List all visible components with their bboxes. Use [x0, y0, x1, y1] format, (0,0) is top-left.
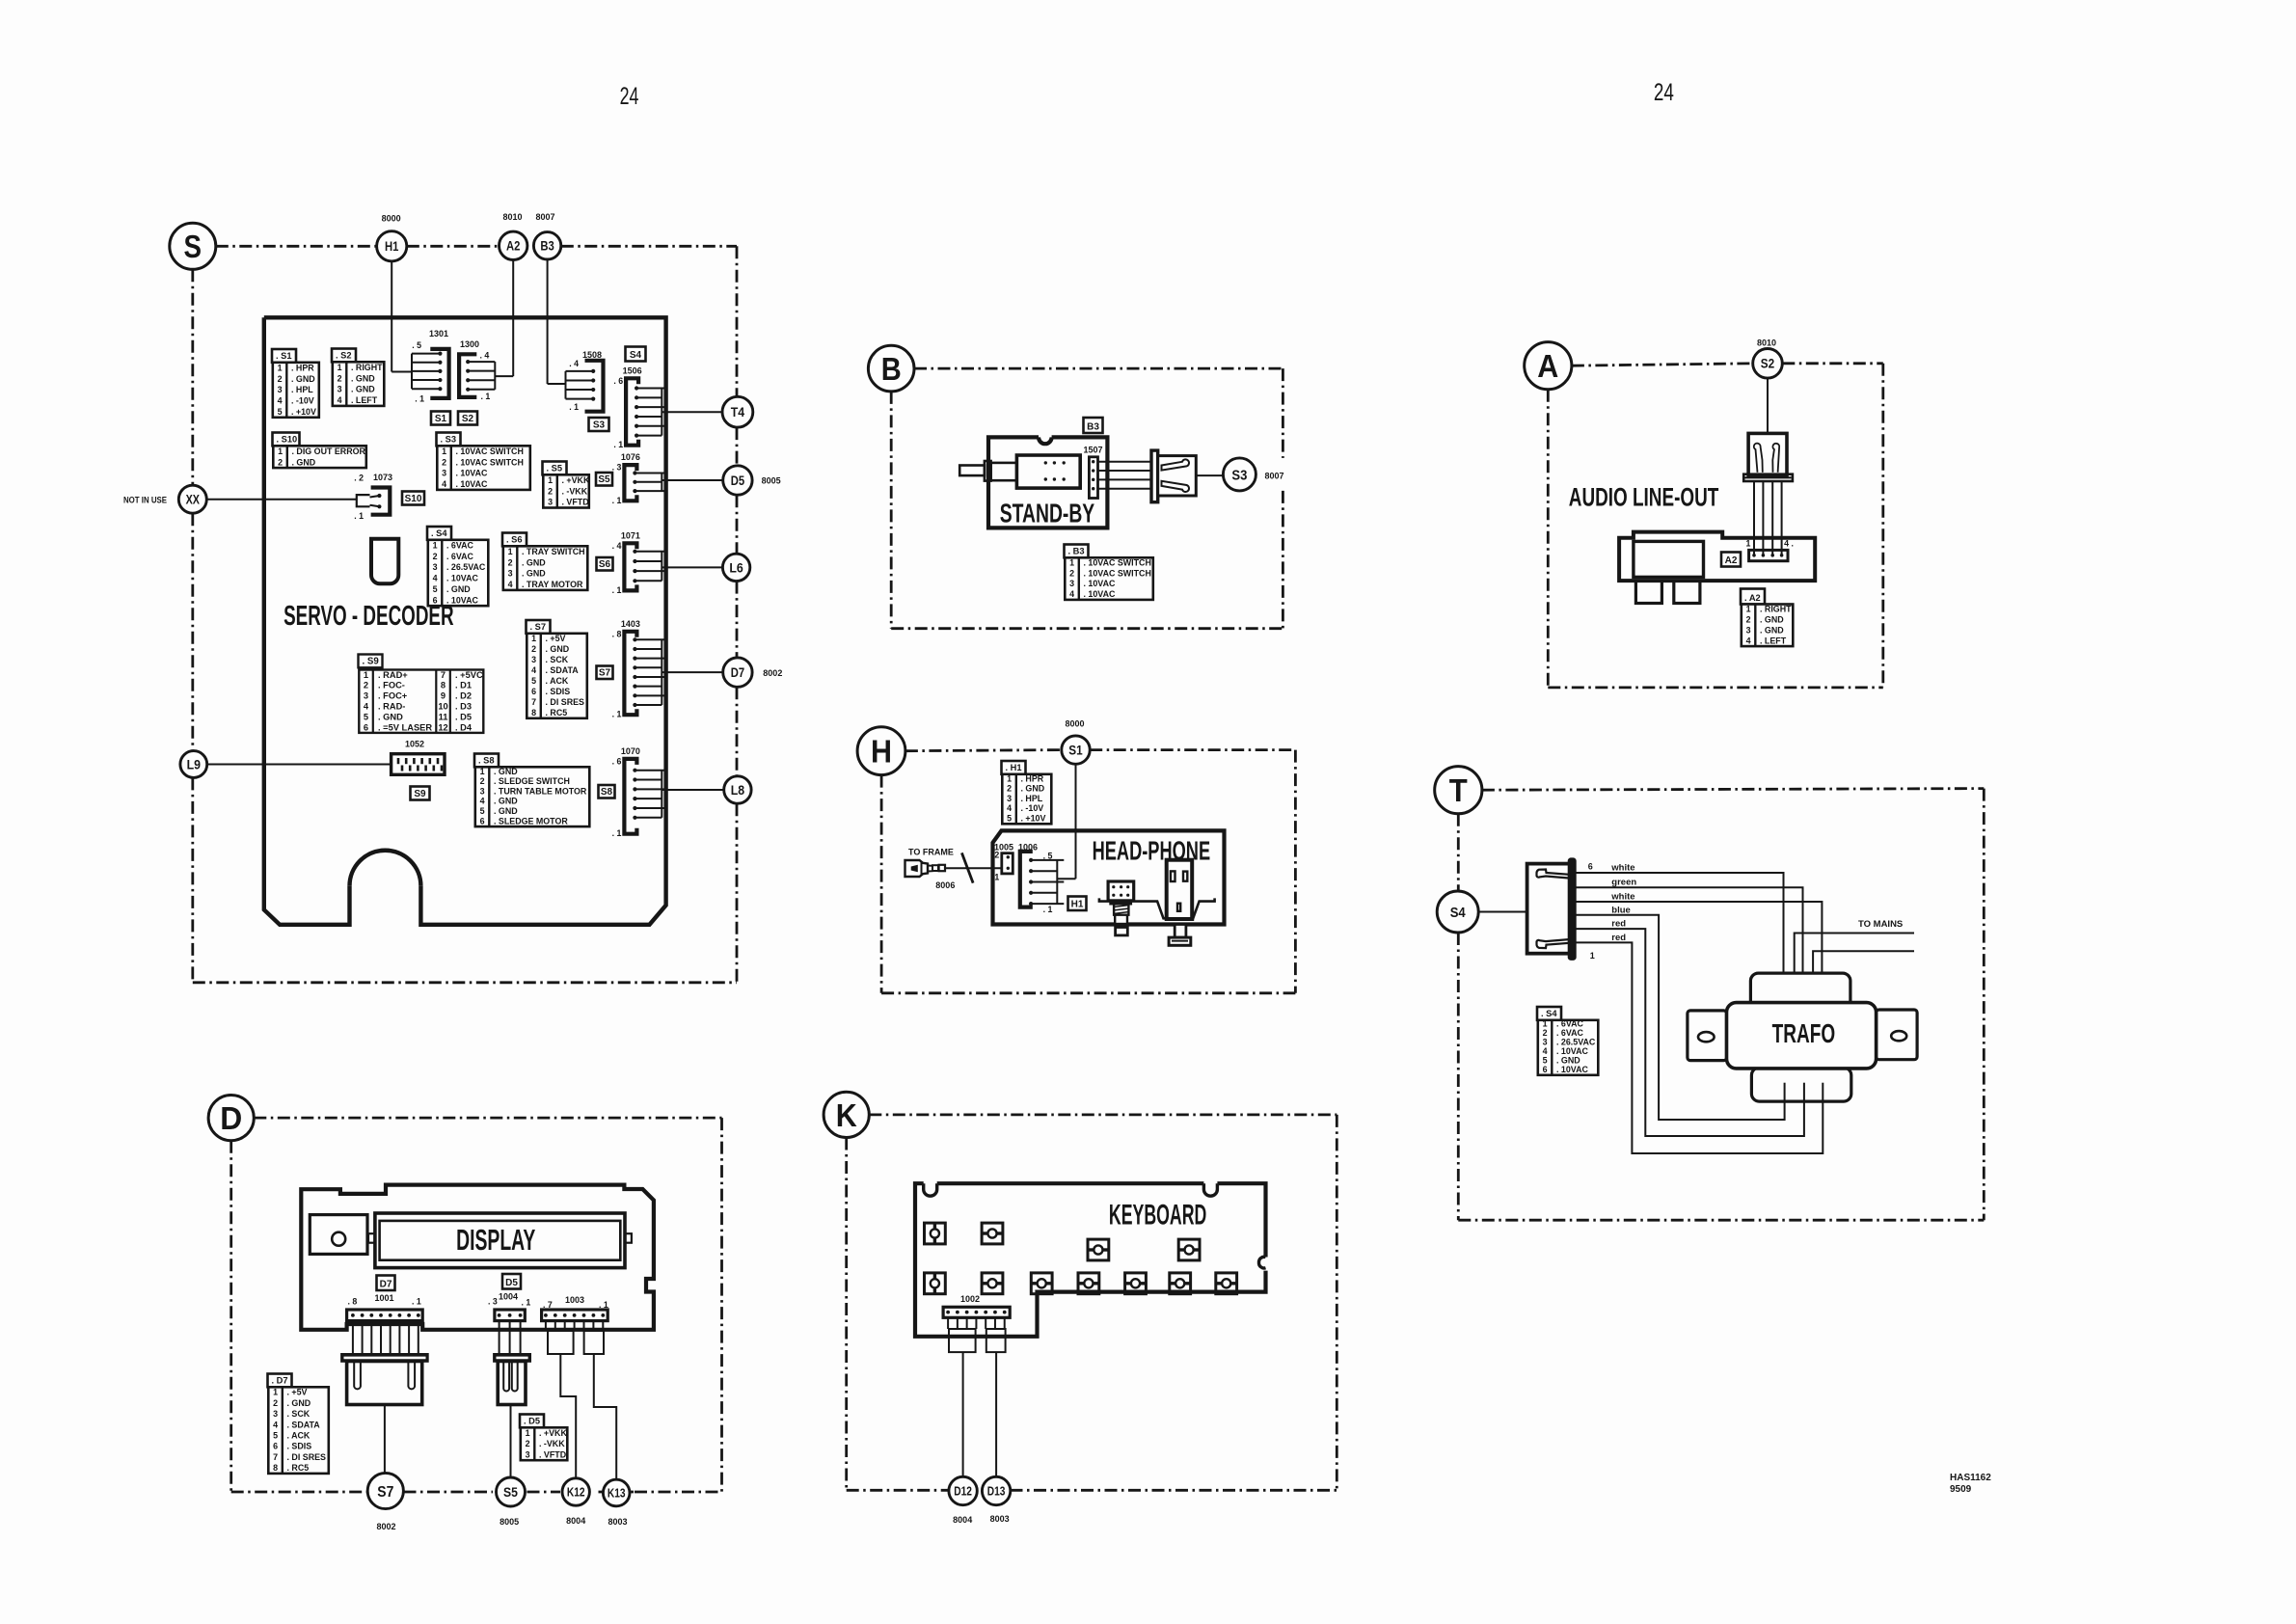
svg-text:S4: S4 [630, 350, 642, 361]
connector 1071 [612, 530, 723, 595]
svg-text:2: 2 [1069, 568, 1074, 578]
node D12 [949, 1476, 977, 1504]
svg-text:DISPLAY: DISPLAY [456, 1223, 535, 1257]
svg-text:. 1: . 1 [412, 1297, 421, 1307]
svg-text:2: 2 [1543, 1028, 1548, 1038]
connector 1403 [612, 619, 723, 719]
svg-text:1: 1 [278, 447, 283, 456]
svg-text:. 10VAC: . 10VAC [456, 469, 488, 478]
svg-text:. =5V LASER: . =5V LASER [378, 722, 432, 732]
svg-text:B: B [881, 351, 902, 387]
node K13 [603, 1479, 630, 1506]
pin table S5 [543, 462, 590, 508]
wire L9 to 1052 [207, 764, 392, 766]
doc code HAS1162 9509 [1950, 1473, 1991, 1495]
svg-text:. 10VAC: . 10VAC [1084, 589, 1116, 599]
svg-text:. B3: . B3 [1068, 547, 1085, 556]
node S7 [367, 1473, 403, 1508]
svg-text:1002: 1002 [960, 1294, 980, 1304]
node T4 [722, 396, 753, 427]
svg-text:S3: S3 [1231, 467, 1247, 483]
wire S4 to mains connector [1478, 911, 1526, 913]
wire blue to trafo bottom [1575, 915, 1784, 1120]
wire XX to 1073 [206, 499, 356, 501]
svg-text:8005: 8005 [500, 1517, 519, 1527]
svg-text:. 3: . 3 [488, 1297, 498, 1307]
svg-text:3: 3 [338, 385, 342, 394]
svg-text:. 6VAC: . 6VAC [446, 540, 474, 550]
display board outline [301, 1185, 654, 1330]
connector label box S2 [458, 412, 477, 425]
svg-text:5: 5 [1543, 1056, 1548, 1066]
pin table S9 double [359, 655, 484, 733]
key switch row2 c [1031, 1273, 1052, 1294]
svg-text:1507: 1507 [1083, 446, 1102, 455]
svg-text:6: 6 [1588, 862, 1593, 872]
svg-text:. SCK: . SCK [287, 1409, 311, 1419]
svg-text:S5: S5 [598, 474, 610, 485]
svg-text:. RAD+: . RAD+ [378, 670, 408, 680]
wire bundles 1003 [546, 1321, 604, 1354]
svg-text:green: green [1611, 878, 1636, 888]
svg-text:1508: 1508 [582, 350, 602, 360]
svg-text:K12: K12 [567, 1485, 585, 1500]
svg-text:6: 6 [480, 816, 485, 826]
svg-text:D5: D5 [505, 1278, 518, 1288]
svg-text:. D2: . D2 [455, 691, 472, 701]
svg-text:. 1: . 1 [612, 496, 622, 505]
svg-text:. GND: . GND [522, 569, 546, 579]
head-phone board outline [993, 830, 1225, 924]
svg-text:5: 5 [364, 712, 368, 721]
node K12 [562, 1478, 589, 1505]
svg-text:. S3: . S3 [441, 435, 457, 445]
wire S1 to 1006 [1057, 764, 1075, 879]
wire green to trafo [1575, 887, 1802, 993]
svg-text:STAND-BY: STAND-BY [1000, 499, 1095, 528]
svg-text:S7: S7 [599, 668, 611, 679]
key switch row2 f [1170, 1273, 1191, 1294]
wire white to trafo [1575, 902, 1822, 993]
svg-text:. HPR: . HPR [1021, 773, 1044, 783]
svg-text:1: 1 [548, 475, 553, 485]
svg-text:D7: D7 [731, 665, 744, 680]
node K [824, 1092, 869, 1137]
svg-text:B3: B3 [1087, 422, 1099, 433]
svg-text:2: 2 [442, 457, 446, 467]
svg-text:. VFTD: . VFTD [539, 1449, 567, 1459]
pin table D7 display [268, 1374, 329, 1474]
svg-text:. D7: . D7 [272, 1376, 288, 1386]
svg-text:8006: 8006 [935, 880, 955, 890]
svg-text:1001: 1001 [374, 1293, 393, 1303]
svg-text:. 1: . 1 [569, 402, 579, 412]
connector 1002 [943, 1294, 1010, 1317]
svg-text:4: 4 [278, 396, 283, 406]
svg-text:6: 6 [1543, 1065, 1548, 1074]
svg-text:. 1: . 1 [415, 394, 424, 404]
svg-text:. 5: . 5 [412, 340, 421, 350]
node S4 [1437, 891, 1478, 933]
node D5 [723, 466, 752, 495]
svg-text:. -10V: . -10V [1021, 803, 1044, 813]
key switch row2 a [925, 1273, 946, 1294]
svg-text:H1: H1 [1071, 900, 1084, 910]
svg-text:D5: D5 [731, 474, 745, 488]
svg-text:3: 3 [1069, 579, 1074, 588]
svg-text:8: 8 [531, 708, 536, 717]
svg-text:. RC5: . RC5 [287, 1463, 310, 1473]
svg-text:. D3: . D3 [455, 702, 472, 712]
svg-text:. 6VAC: . 6VAC [1556, 1019, 1584, 1029]
svg-text:1004: 1004 [499, 1292, 518, 1302]
svg-text:. 6VAC: . 6VAC [446, 552, 474, 561]
mounting bracket line [1099, 898, 1215, 918]
connector label box S4 [626, 347, 646, 362]
svg-text:1300: 1300 [460, 339, 479, 349]
svg-text:D7: D7 [380, 1280, 392, 1290]
svg-text:. GND: . GND [522, 557, 546, 567]
connector 1003 [542, 1295, 608, 1321]
key switch row1 a [925, 1223, 946, 1244]
svg-text:. TRAY SWITCH: . TRAY SWITCH [522, 547, 585, 556]
svg-text:7: 7 [273, 1452, 278, 1462]
svg-text:. HPR: . HPR [291, 363, 314, 372]
pin table S10 [273, 433, 366, 469]
connector 1300 [459, 339, 495, 401]
key switch row1 c [1088, 1239, 1109, 1260]
wire to D13 [995, 1352, 997, 1476]
connector 1005 [994, 843, 1013, 882]
svg-text:KEYBOARD: KEYBOARD [1109, 1200, 1206, 1232]
svg-text:2: 2 [1007, 784, 1012, 794]
connector 1052 [392, 740, 445, 775]
connector 1073 [354, 473, 392, 521]
node S2 [1753, 349, 1783, 379]
svg-text:. 1: . 1 [612, 585, 622, 595]
svg-text:3: 3 [364, 691, 368, 701]
trafo body [1688, 973, 1917, 1101]
svg-text:3: 3 [1746, 625, 1751, 635]
block A dash-dot border [1548, 364, 1883, 688]
wire bundles 1002 [948, 1317, 1006, 1352]
svg-text:. LEFT: . LEFT [351, 395, 378, 405]
svg-text:B3: B3 [540, 239, 554, 254]
svg-text:. S2: . S2 [336, 351, 352, 361]
svg-text:5: 5 [273, 1431, 278, 1441]
svg-text:8000: 8000 [382, 214, 401, 224]
connector label box S3 [589, 418, 609, 431]
svg-text:. GND: . GND [494, 806, 518, 816]
node B [868, 345, 914, 392]
svg-text:8007: 8007 [535, 212, 554, 222]
connector 1507 [1083, 446, 1102, 499]
svg-text:2: 2 [526, 1439, 530, 1448]
svg-text:. 6: . 6 [613, 376, 623, 386]
svg-text:. 10VAC: . 10VAC [446, 574, 478, 583]
svg-text:. GND: . GND [1021, 784, 1045, 794]
svg-text:3: 3 [508, 569, 513, 579]
svg-text:. 4: . 4 [480, 351, 490, 361]
pin table H1 [1002, 761, 1052, 824]
svg-text:S1: S1 [435, 414, 447, 424]
svg-text:. 10VAC: . 10VAC [1556, 1065, 1588, 1074]
svg-text:3: 3 [1543, 1038, 1548, 1047]
pin table B3 [1065, 545, 1153, 600]
trafo bottom pin stubs [1785, 1083, 1823, 1101]
svg-text:1: 1 [1746, 539, 1751, 549]
node D [208, 1096, 254, 1141]
svg-text:4: 4 [442, 479, 446, 489]
node L8 [724, 776, 751, 803]
svg-text:8004: 8004 [953, 1515, 972, 1525]
node T [1435, 767, 1482, 814]
svg-text:4: 4 [1007, 803, 1012, 813]
svg-text:6: 6 [433, 595, 438, 605]
key switch row2 e [1125, 1273, 1147, 1294]
svg-text:S10: S10 [405, 494, 422, 504]
svg-text:. S1: . S1 [276, 351, 292, 361]
headphone jack symbol [1108, 881, 1134, 935]
wire S2 to phono plug [1767, 378, 1769, 433]
svg-text:T: T [1449, 772, 1468, 808]
svg-text:. GND: . GND [494, 797, 518, 806]
svg-text:3: 3 [526, 1449, 530, 1459]
plug to S3 [1151, 450, 1223, 502]
phono plug [1743, 433, 1793, 481]
connector label box S1 [431, 412, 450, 425]
svg-text:. GND: . GND [1760, 615, 1784, 625]
svg-text:S7: S7 [377, 1484, 393, 1501]
node S [170, 223, 216, 269]
svg-text:. GND: . GND [291, 374, 315, 384]
svg-text:1: 1 [994, 873, 999, 882]
svg-text:1: 1 [278, 363, 283, 372]
svg-text:. 6: . 6 [612, 756, 622, 766]
svg-text:. -10V: . -10V [291, 396, 314, 406]
svg-text:5: 5 [480, 806, 485, 816]
svg-text:6: 6 [273, 1442, 278, 1451]
svg-text:9: 9 [441, 691, 446, 701]
node D7 [723, 658, 752, 687]
svg-text:8000: 8000 [1065, 719, 1084, 729]
key switch row2 b [982, 1273, 1003, 1294]
svg-text:3: 3 [548, 498, 553, 507]
node XX not in use [178, 485, 206, 513]
connector label box S10 [402, 492, 424, 505]
svg-text:. 10VAC: . 10VAC [1556, 1046, 1588, 1056]
key switch row1 d [1178, 1239, 1200, 1260]
svg-text:. RIGHT: . RIGHT [351, 363, 383, 372]
mount plate with hole [310, 1215, 367, 1255]
svg-text:4: 4 [531, 665, 536, 675]
svg-text:2: 2 [273, 1398, 278, 1408]
svg-text:1: 1 [526, 1428, 530, 1438]
svg-text:4 .: 4 . [1784, 539, 1794, 549]
wire red 1 to trafo bottom [1575, 942, 1823, 1153]
svg-text:. +5V: . +5V [546, 634, 566, 643]
svg-text:. RIGHT: . RIGHT [1760, 605, 1792, 614]
connector 1006 [1018, 843, 1064, 915]
svg-text:1: 1 [1590, 951, 1595, 961]
svg-text:. SDATA: . SDATA [287, 1420, 321, 1429]
svg-text:8010: 8010 [1757, 338, 1776, 348]
svg-text:8: 8 [273, 1463, 278, 1473]
svg-text:. S4: . S4 [431, 528, 447, 538]
svg-text:4: 4 [1069, 589, 1074, 599]
connector label box S6 [597, 557, 613, 571]
svg-text:8: 8 [441, 681, 446, 690]
node B3 [533, 232, 560, 259]
stand-by switch symbol [959, 455, 1080, 488]
wire to K13 [594, 1354, 616, 1480]
svg-text:. GND: . GND [351, 373, 375, 383]
svg-text:2: 2 [278, 457, 283, 467]
svg-text:. S6: . S6 [506, 535, 523, 545]
svg-text:5: 5 [433, 584, 438, 594]
svg-text:1003: 1003 [565, 1295, 584, 1305]
svg-text:. -VKK: . -VKK [562, 486, 588, 496]
svg-text:A2: A2 [506, 239, 520, 254]
svg-text:. D5: . D5 [455, 712, 472, 721]
node H1 [377, 231, 407, 261]
svg-text:4: 4 [273, 1420, 278, 1429]
plug S5 8005 [494, 1354, 529, 1477]
svg-text:8002: 8002 [376, 1522, 395, 1531]
svg-text:1: 1 [531, 634, 536, 643]
svg-text:L8: L8 [731, 783, 745, 798]
connector label box D7 [377, 1276, 395, 1291]
svg-text:. ACK: . ACK [287, 1431, 311, 1441]
svg-text:4: 4 [338, 395, 342, 405]
svg-text:1: 1 [1746, 605, 1751, 614]
svg-text:1052: 1052 [405, 740, 424, 749]
svg-text:HAS1162: HAS1162 [1950, 1473, 1991, 1483]
RCA jack tab right [1674, 581, 1700, 603]
svg-text:10: 10 [438, 702, 447, 712]
connector 1070 [612, 746, 724, 838]
svg-text:. S10: . S10 [277, 435, 298, 445]
block H dash-dot border [881, 750, 1295, 993]
svg-text:2: 2 [278, 374, 283, 384]
svg-text:3: 3 [433, 562, 438, 572]
svg-text:4: 4 [364, 702, 369, 712]
svg-text:1: 1 [433, 540, 438, 550]
svg-text:. S4: . S4 [1541, 1009, 1557, 1018]
svg-text:. 10VAC: . 10VAC [1084, 579, 1116, 588]
svg-text:red: red [1611, 919, 1626, 930]
svg-text:2: 2 [480, 776, 485, 786]
svg-text:. TURN TABLE MOTOR: . TURN TABLE MOTOR [494, 786, 587, 796]
svg-text:. GND: . GND [292, 457, 316, 467]
svg-text:3: 3 [442, 469, 446, 478]
svg-text:. 10VAC: . 10VAC [456, 479, 488, 489]
svg-text:. 10VAC SWITCH: . 10VAC SWITCH [456, 447, 524, 456]
svg-text:5: 5 [531, 676, 536, 686]
svg-text:. DIG OUT ERROR: . DIG OUT ERROR [292, 447, 366, 456]
servo-decoder board outline [264, 317, 666, 925]
svg-text:. 6VAC: . 6VAC [1556, 1028, 1584, 1038]
svg-text:3: 3 [480, 786, 485, 796]
node H [857, 727, 905, 775]
svg-text:. 26.5VAC: . 26.5VAC [1556, 1038, 1596, 1047]
connector 1076 [612, 452, 723, 505]
svg-text:1: 1 [480, 767, 485, 776]
RCA jack tab left [1635, 581, 1661, 603]
key switch row2 d [1078, 1273, 1099, 1294]
wire A2 to connector 1300 [495, 260, 513, 377]
connector label box B3 [1084, 418, 1103, 433]
svg-text:1: 1 [442, 447, 446, 456]
pin table S1 [272, 349, 319, 418]
svg-text:1071: 1071 [621, 530, 640, 540]
wire labels white green white blue red red [1610, 863, 1636, 943]
svg-text:S6: S6 [599, 559, 611, 570]
block K dash-dot border [847, 1115, 1337, 1490]
key switch row2 g [1216, 1273, 1237, 1294]
RCA jack block [1634, 541, 1704, 577]
svg-text:24: 24 [620, 83, 639, 110]
svg-text:1506: 1506 [623, 365, 642, 375]
svg-text:2: 2 [508, 557, 513, 567]
svg-text:1073: 1073 [373, 473, 392, 482]
svg-text:6: 6 [531, 687, 536, 696]
svg-text:12: 12 [438, 722, 447, 732]
svg-text:NOT IN USE: NOT IN USE [123, 496, 167, 505]
svg-text:S2: S2 [1761, 357, 1774, 371]
node A [1525, 342, 1572, 390]
svg-text:2: 2 [433, 552, 438, 561]
svg-text:5: 5 [1007, 814, 1012, 824]
svg-text:. 1: . 1 [612, 710, 622, 719]
svg-text:4: 4 [508, 580, 513, 589]
svg-text:4: 4 [433, 574, 438, 583]
svg-text:. +5V: . +5V [287, 1388, 308, 1397]
svg-text:2: 2 [338, 373, 342, 383]
svg-text:. 10VAC SWITCH: . 10VAC SWITCH [1084, 568, 1151, 578]
svg-text:. 4: . 4 [569, 359, 579, 368]
pin table A2 [1741, 589, 1793, 647]
svg-text:. 1: . 1 [354, 511, 364, 521]
svg-text:2: 2 [1746, 615, 1751, 625]
svg-text:8004: 8004 [566, 1516, 585, 1526]
svg-text:1: 1 [1069, 557, 1074, 567]
pin table S4 [427, 527, 488, 606]
svg-text:white: white [1610, 863, 1634, 874]
mains connector [1527, 859, 1595, 961]
stand-by board outline [988, 437, 1107, 528]
svg-text:. D4: . D4 [455, 722, 473, 732]
svg-text:S1: S1 [1068, 743, 1083, 757]
wire B3 to connector 1508 [548, 259, 566, 384]
wire to D12 [962, 1352, 964, 1476]
svg-text:. 1: . 1 [1043, 905, 1053, 914]
svg-text:6: 6 [364, 722, 368, 732]
svg-text:. +VKK: . +VKK [562, 475, 590, 485]
connector label box H1 [1068, 897, 1087, 911]
wire to K12 [560, 1354, 576, 1478]
svg-text:T4: T4 [731, 405, 745, 420]
svg-text:. 10VAC SWITCH: . 10VAC SWITCH [1084, 557, 1151, 567]
svg-text:D12: D12 [954, 1484, 972, 1499]
svg-text:. GND: . GND [494, 767, 518, 776]
wire red to trafo bottom [1575, 929, 1804, 1136]
svg-text:red: red [1611, 933, 1626, 943]
svg-text:A2: A2 [1725, 555, 1738, 566]
svg-text:11: 11 [439, 712, 448, 721]
svg-text:L9: L9 [187, 757, 201, 771]
pin strip A2 1..4 [1746, 539, 1794, 561]
